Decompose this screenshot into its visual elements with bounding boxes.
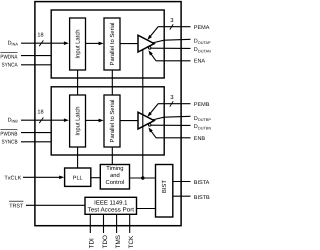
bus slash 18 B [39, 117, 43, 123]
inverting bubble A [148, 47, 151, 50]
bus slash 3 B [170, 101, 173, 106]
enable vertical from driver A to junction [142, 49, 144, 178]
timing and control box [100, 165, 129, 190]
IEEE 1149.1 test access port box [85, 197, 137, 214]
control vertical p2sB to timing [111, 147, 113, 165]
inverting bubble B [148, 124, 151, 127]
svg-text:DOUTAP: DOUTAP [194, 39, 211, 45]
wire timing to BIST [130, 177, 156, 179]
input latch A box [70, 18, 86, 70]
wire PLL to timing [91, 177, 101, 179]
svg-text:PEMB: PEMB [194, 102, 210, 108]
parallel to serial B box [104, 95, 120, 147]
line driver A triangle [138, 35, 154, 52]
wire p2sA to driver A [120, 43, 138, 45]
svg-text:DOUTBP: DOUTBP [194, 116, 212, 122]
bus slash 3 A [170, 24, 173, 29]
svg-text:PWDNB: PWDNB [0, 131, 17, 137]
svg-text:DINA: DINA [8, 40, 19, 46]
wire TRST input [26, 204, 85, 206]
svg-text:Test Access Port: Test Access Port [88, 206, 135, 213]
wire D_OUTBP output [153, 116, 191, 120]
wire PWDNB input [21, 132, 51, 134]
control vertical p2sA to p2sB [111, 70, 113, 95]
wire PEMB horizontal [158, 103, 191, 105]
pin TMS stub [116, 214, 118, 233]
channel B block box [51, 87, 164, 155]
svg-text:18: 18 [37, 32, 43, 38]
channel A block box [51, 10, 164, 78]
wire ENA diagonal into driver A [151, 54, 156, 61]
svg-text:Parallel to Serial: Parallel to Serial [109, 23, 116, 66]
input latch B box [70, 95, 86, 147]
svg-text:3: 3 [170, 94, 174, 101]
control vertical latchA to latchB [77, 70, 79, 95]
bus slash 18 A [39, 40, 43, 46]
svg-text:TxCLK: TxCLK [4, 176, 21, 182]
control vertical latchB to PLL [77, 147, 79, 168]
svg-text:DOUTAN: DOUTAN [194, 47, 211, 53]
parallel to serial A box [104, 18, 120, 70]
svg-text:DINB: DINB [8, 117, 19, 123]
svg-text:ENA: ENA [194, 59, 206, 65]
svg-text:PEMA: PEMA [194, 25, 210, 31]
svg-text:BISTB: BISTB [194, 195, 210, 201]
svg-text:BISTA: BISTA [194, 180, 210, 186]
PLL box [65, 168, 91, 186]
svg-text:BIST: BIST [161, 180, 168, 193]
svg-text:and: and [110, 172, 120, 179]
wire TxCLK input [23, 176, 61, 178]
svg-text:ENB: ENB [194, 136, 206, 142]
svg-text:TRST: TRST [9, 204, 24, 210]
line driver B triangle [138, 112, 154, 129]
wire ENA horizontal [156, 60, 191, 62]
wire latchB to p2sB [86, 119, 101, 121]
wire D_OUTAN output [151, 47, 191, 49]
wire D_INA input [21, 42, 66, 44]
wire latchA to p2sA [86, 42, 101, 44]
svg-text:TCK: TCK [128, 235, 135, 248]
pin TCK stub [129, 214, 131, 233]
wire D_OUTBN output [151, 124, 191, 126]
svg-text:Parallel to Serial: Parallel to Serial [109, 100, 116, 143]
svg-text:Timing: Timing [106, 165, 123, 172]
svg-text:TDI: TDI [89, 238, 96, 248]
junction dot [141, 176, 145, 180]
wire D_OUTAP output [153, 39, 191, 43]
svg-text:PLL: PLL [73, 176, 83, 182]
svg-text:3: 3 [170, 17, 174, 24]
svg-text:TDO: TDO [102, 235, 109, 248]
wire BISTA output [173, 181, 191, 183]
pin TDI stub [89, 214, 91, 233]
svg-text:TMS: TMS [115, 235, 122, 248]
svg-text:DOUTBN: DOUTBN [194, 124, 212, 130]
wire PEMA horizontal [158, 26, 191, 28]
wire D_INB input [21, 119, 66, 121]
svg-text:Input Latch: Input Latch [75, 106, 82, 135]
svg-text:Input Latch: Input Latch [75, 29, 82, 58]
overline PWDNB [0, 129, 17, 131]
wire ENB horizontal [156, 137, 191, 139]
overline PWDNA [0, 52, 17, 54]
wire BISTB output [173, 195, 191, 197]
wire PEMB diagonal into driver B [149, 104, 158, 115]
svg-text:Control: Control [106, 179, 125, 186]
wire SYNCB input [21, 141, 51, 143]
svg-text:PWDNA: PWDNA [0, 54, 17, 60]
svg-text:IEEE 1149.1: IEEE 1149.1 [94, 199, 128, 206]
pin TDO stub [103, 214, 105, 233]
svg-text:18: 18 [37, 109, 43, 115]
svg-text:SYNCB: SYNCB [2, 140, 18, 146]
wire PWDNA input [21, 55, 51, 57]
BIST box [156, 165, 173, 218]
overline TRST [9, 200, 23, 202]
wire p2sB to driver B [120, 120, 138, 122]
wire ENB diagonal into driver B [151, 131, 156, 138]
svg-text:SYNCA: SYNCA [2, 63, 18, 69]
chip outer boundary [35, 2, 181, 226]
wire SYNCA input [21, 64, 51, 66]
wire PEMA diagonal into driver A [149, 27, 158, 38]
wire IEEE to BIST [137, 208, 156, 210]
